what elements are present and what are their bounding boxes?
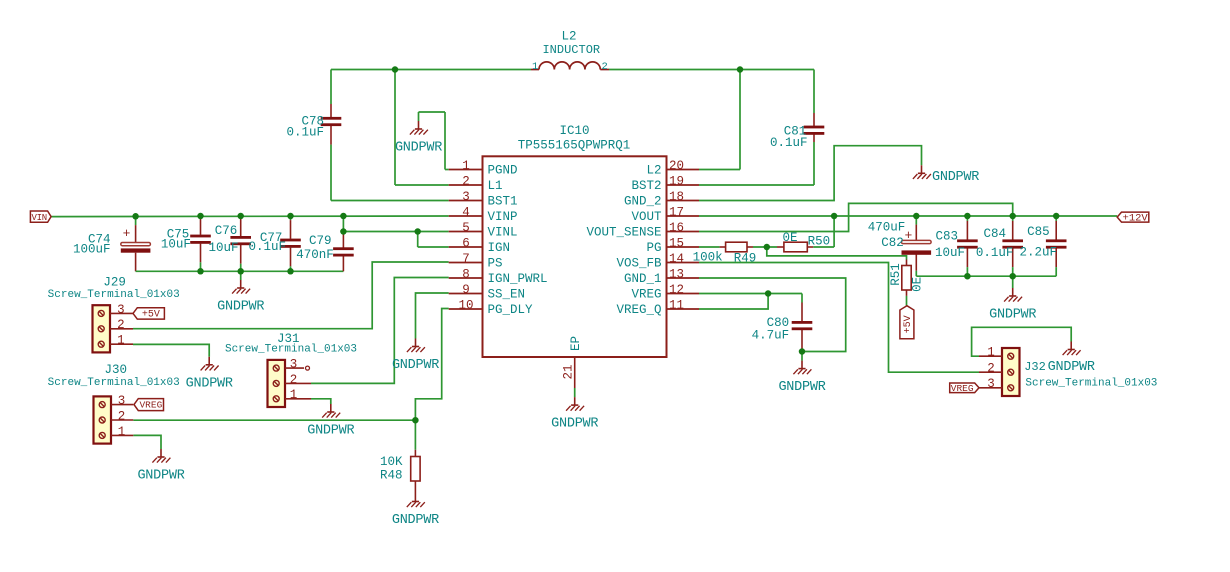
svg-text:2: 2 [117,318,125,332]
svg-text:GNDPWR: GNDPWR [551,417,598,432]
svg-text:C84: C84 [983,227,1006,241]
svg-text:9: 9 [462,283,470,297]
svg-text:BST2: BST2 [631,179,661,193]
svg-text:1: 1 [532,61,538,73]
svg-text:J32: J32 [1024,360,1046,374]
svg-text:3: 3 [987,377,995,391]
svg-text:GNDPWR: GNDPWR [395,141,442,156]
svg-text:VINL: VINL [488,226,518,240]
svg-text:+12V: +12V [1123,212,1149,224]
svg-text:8: 8 [462,267,470,281]
svg-text:GNDPWR: GNDPWR [778,380,825,395]
svg-text:1: 1 [290,388,298,402]
svg-text:12: 12 [669,283,684,297]
svg-text:Screw_Terminal_01x03: Screw_Terminal_01x03 [48,289,180,301]
svg-text:+: + [904,228,912,243]
svg-text:19: 19 [669,174,684,188]
svg-text:GNDPWR: GNDPWR [989,308,1036,323]
svg-text:1: 1 [118,425,126,439]
svg-text:GNDPWR: GNDPWR [217,300,264,315]
svg-text:10uF: 10uF [161,237,191,251]
svg-text:470nF: 470nF [296,248,334,262]
svg-text:VOUT: VOUT [631,210,662,224]
svg-text:PG_DLY: PG_DLY [488,303,534,317]
svg-text:Screw_Terminal_01x03: Screw_Terminal_01x03 [1025,377,1157,389]
svg-text:5: 5 [462,221,470,235]
svg-text:15: 15 [669,236,684,250]
svg-text:0E: 0E [782,231,797,245]
svg-text:2.2uF: 2.2uF [1019,245,1057,259]
svg-text:100uF: 100uF [73,242,111,256]
svg-text:GNDPWR: GNDPWR [186,376,233,391]
svg-text:INDUCTOR: INDUCTOR [542,43,600,57]
svg-text:GNDPWR: GNDPWR [932,170,979,185]
svg-text:6: 6 [462,236,470,250]
svg-text:L2: L2 [561,30,576,44]
svg-text:GNDPWR: GNDPWR [392,358,439,373]
svg-text:18: 18 [669,190,684,204]
svg-text:C76: C76 [215,224,238,238]
svg-text:J30: J30 [104,363,127,377]
svg-text:470uF: 470uF [868,221,906,235]
svg-text:100k: 100k [693,250,723,264]
svg-text:VREG: VREG [631,288,661,302]
svg-text:2: 2 [290,373,298,387]
svg-text:2: 2 [601,61,607,73]
svg-text:C79: C79 [309,234,332,248]
svg-text:VOS_FB: VOS_FB [616,257,662,271]
svg-text:7: 7 [462,252,470,266]
svg-text:R50: R50 [808,235,831,249]
svg-text:Screw_Terminal_01x03: Screw_Terminal_01x03 [225,343,357,355]
svg-text:SS_EN: SS_EN [488,288,526,302]
svg-text:EP: EP [569,336,583,351]
svg-text:+5V: +5V [903,315,914,333]
svg-text:0.1uF: 0.1uF [248,240,286,254]
svg-text:3: 3 [117,303,125,317]
svg-text:GNDPWR: GNDPWR [1048,360,1095,375]
svg-text:3: 3 [462,190,470,204]
svg-text:VIN: VIN [32,213,47,223]
svg-text:PG: PG [646,241,661,255]
svg-text:0.1uF: 0.1uF [286,125,324,139]
svg-text:R49: R49 [734,251,757,265]
svg-text:GND_1: GND_1 [624,272,662,286]
svg-text:L1: L1 [488,179,503,193]
svg-text:C82: C82 [881,236,904,250]
svg-text:BST1: BST1 [488,195,518,209]
svg-text:11: 11 [669,298,684,312]
svg-text:4: 4 [462,205,470,219]
svg-text:13: 13 [669,267,684,281]
svg-text:VREG: VREG [951,383,974,394]
svg-text:20: 20 [669,159,684,173]
svg-text:GNDPWR: GNDPWR [137,469,184,484]
svg-text:10: 10 [458,298,473,312]
svg-text:2: 2 [462,174,470,188]
svg-text:0.1uF: 0.1uF [976,246,1014,260]
svg-text:10uF: 10uF [935,246,965,260]
svg-text:1: 1 [462,159,470,173]
svg-text:PGND: PGND [488,164,518,178]
svg-text:C83: C83 [935,230,958,244]
svg-text:GNDPWR: GNDPWR [392,513,439,528]
svg-text:2: 2 [118,409,126,423]
svg-text:3: 3 [290,358,298,372]
svg-text:0E: 0E [910,277,924,292]
svg-text:R48: R48 [380,469,403,483]
svg-text:R51: R51 [889,263,903,286]
svg-text:14: 14 [669,252,684,266]
svg-text:10K: 10K [380,455,403,469]
svg-text:17: 17 [669,205,684,219]
svg-text:PS: PS [488,257,503,271]
svg-text:+5V: +5V [142,310,160,321]
svg-text:VREG_Q: VREG_Q [616,303,661,317]
svg-text:J29: J29 [103,276,126,290]
svg-text:1: 1 [117,334,125,348]
svg-text:VINP: VINP [488,210,518,224]
svg-text:IGN: IGN [488,241,511,255]
svg-text:0.1uF: 0.1uF [770,136,808,150]
svg-text:VREG: VREG [139,400,162,411]
svg-text:+: + [123,226,131,241]
svg-text:IGN_PWRL: IGN_PWRL [488,272,548,286]
svg-text:4.7uF: 4.7uF [752,329,790,343]
svg-text:21: 21 [561,364,575,379]
svg-text:IC10: IC10 [559,124,589,138]
svg-text:10uF: 10uF [208,241,238,255]
svg-text:3: 3 [118,394,126,408]
svg-text:2: 2 [987,362,995,376]
svg-text:Screw_Terminal_01x03: Screw_Terminal_01x03 [48,377,180,389]
svg-text:TP555165QPWPRQ1: TP555165QPWPRQ1 [518,139,631,153]
svg-text:GND_2: GND_2 [624,195,662,209]
svg-text:C85: C85 [1027,225,1050,239]
svg-text:L2: L2 [646,164,661,178]
svg-text:GNDPWR: GNDPWR [307,424,354,439]
svg-text:16: 16 [669,221,684,235]
svg-text:1: 1 [987,346,995,360]
svg-text:VOUT_SENSE: VOUT_SENSE [586,226,661,240]
